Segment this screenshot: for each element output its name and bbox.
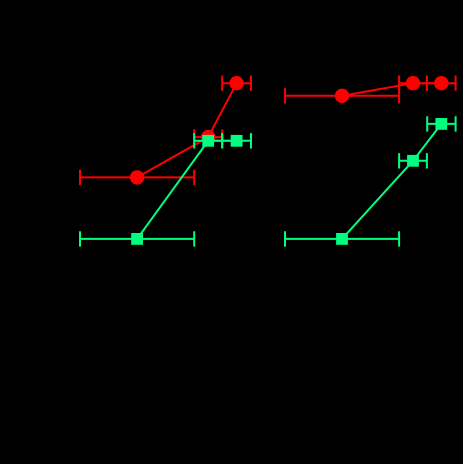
green point R1 marker bbox=[336, 233, 348, 245]
red point L2 error bar bbox=[194, 129, 222, 144]
green point L2 error bar bbox=[194, 133, 222, 148]
red point L1 error bar bbox=[80, 170, 194, 185]
red point L2 marker bbox=[201, 130, 215, 144]
green point L1 error bar bbox=[80, 231, 194, 246]
green series line, right panel bbox=[342, 124, 441, 239]
red point R2 marker bbox=[406, 76, 420, 90]
red point L3 marker bbox=[229, 76, 243, 90]
red point R3 error bar bbox=[427, 76, 456, 91]
red point L3 error bar bbox=[222, 76, 251, 91]
green point R3 marker bbox=[435, 118, 447, 130]
green point R3 error bar bbox=[427, 116, 455, 131]
red point R1 marker bbox=[335, 89, 349, 103]
red series line, right panel bbox=[342, 83, 441, 96]
red point R2 error bar bbox=[399, 76, 427, 91]
green point L1 marker bbox=[131, 233, 143, 245]
red point R3 marker bbox=[434, 76, 448, 90]
green point R2 marker bbox=[407, 155, 419, 167]
green point L3 marker bbox=[231, 135, 243, 147]
red point R1 error bar bbox=[285, 88, 399, 103]
green point R2 error bar bbox=[399, 153, 427, 168]
green point L2 marker bbox=[202, 135, 214, 147]
green series line, left panel bbox=[137, 141, 237, 239]
green point L3 error bar bbox=[222, 133, 251, 148]
green point R1 error bar bbox=[285, 231, 399, 246]
red point L1 marker bbox=[130, 170, 144, 184]
red series line, left panel bbox=[137, 83, 237, 177]
